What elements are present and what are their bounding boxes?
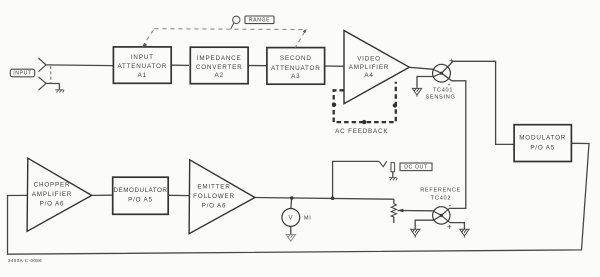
svg-text:+: + xyxy=(447,223,452,232)
svg-text:ATTENUATOR: ATTENUATOR xyxy=(271,65,321,72)
svg-text:TC401: TC401 xyxy=(433,88,453,94)
svg-text:P/O A5: P/O A5 xyxy=(128,197,153,204)
svg-text:CONVERTER: CONVERTER xyxy=(196,64,243,71)
svg-text:AMPLIFIER: AMPLIFIER xyxy=(349,64,389,71)
svg-text:DEMODULATOR: DEMODULATOR xyxy=(114,187,168,194)
svg-text:FOLLOWER: FOLLOWER xyxy=(193,193,235,200)
svg-text:VIDEO: VIDEO xyxy=(357,55,381,62)
svg-text:EMITTER: EMITTER xyxy=(197,184,230,191)
svg-text:P/O A5: P/O A5 xyxy=(530,144,555,151)
svg-text:SENSING: SENSING xyxy=(425,95,455,101)
svg-text:A1: A1 xyxy=(138,72,147,79)
svg-text:-: - xyxy=(448,200,451,210)
svg-text:3400A-C-0086: 3400A-C-0086 xyxy=(8,258,42,263)
svg-text:DC OUT: DC OUT xyxy=(404,165,428,171)
svg-text:P/O A6: P/O A6 xyxy=(202,203,227,210)
svg-text:AMPLIFIER: AMPLIFIER xyxy=(32,191,72,198)
svg-text:P/O A6: P/O A6 xyxy=(40,201,65,208)
svg-text:V: V xyxy=(288,216,293,222)
svg-text:REFERENCE: REFERENCE xyxy=(420,188,461,194)
svg-text:ATTENUATOR: ATTENUATOR xyxy=(117,63,167,70)
svg-text:INPUT: INPUT xyxy=(13,71,32,77)
svg-text:AC FEEDBACK: AC FEEDBACK xyxy=(335,128,388,135)
svg-text:IMPEDANCE: IMPEDANCE xyxy=(197,55,242,62)
svg-text:A3: A3 xyxy=(291,73,300,80)
svg-text:MI: MI xyxy=(304,216,312,222)
svg-text:MODULATOR: MODULATOR xyxy=(519,135,566,142)
svg-text:+: + xyxy=(449,56,454,65)
svg-text:INPUT: INPUT xyxy=(131,54,154,61)
svg-text:A2: A2 xyxy=(215,72,224,79)
svg-text:A4: A4 xyxy=(364,72,373,79)
svg-text:TC402: TC402 xyxy=(431,196,451,202)
svg-text:RANGE: RANGE xyxy=(249,18,270,24)
svg-text:CHOPPER: CHOPPER xyxy=(34,182,71,189)
svg-text:SECOND: SECOND xyxy=(280,55,312,62)
